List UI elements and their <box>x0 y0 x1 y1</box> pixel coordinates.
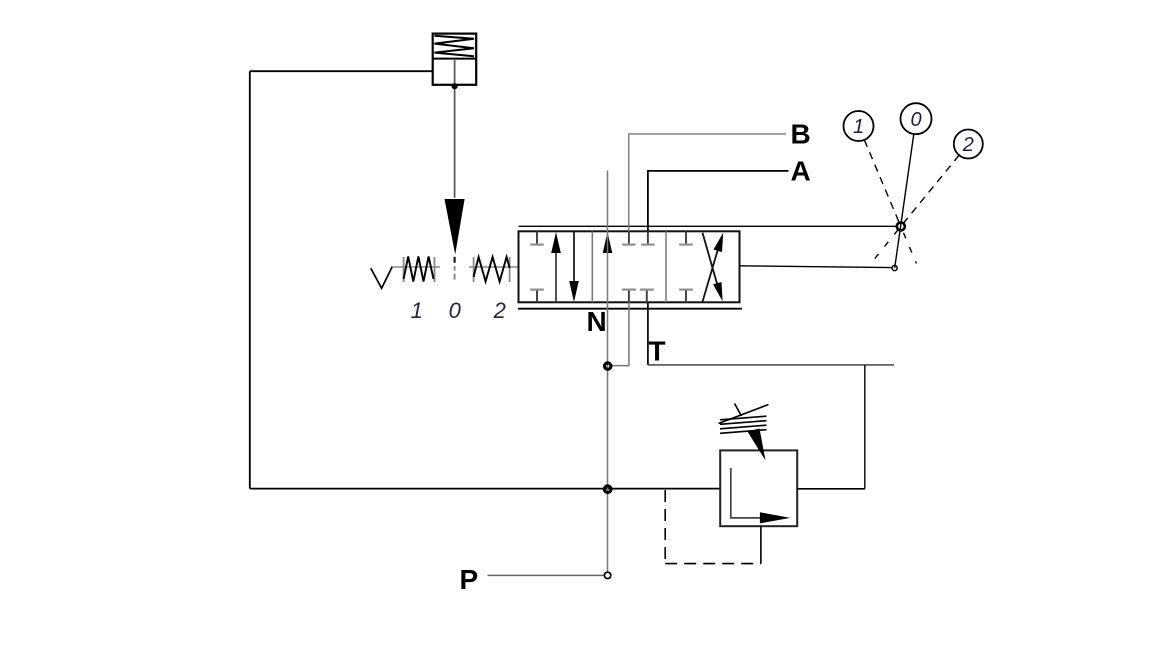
svg-text:B: B <box>791 118 811 149</box>
wire left loop vertical <box>249 71 251 488</box>
directional valve body V1 <box>519 231 740 302</box>
pilot sense dashed wire <box>665 490 761 564</box>
spring left (return spring 1) <box>392 257 440 283</box>
pos1 blocked port top <box>530 231 544 244</box>
actuation arrow <box>445 199 465 255</box>
port P node circle <box>604 572 610 578</box>
svg-text:2: 2 <box>962 134 974 156</box>
lower rail <box>518 308 742 310</box>
lever position 1 arm dashed <box>864 140 901 227</box>
svg-text:0: 0 <box>910 109 921 131</box>
svg-text:1: 1 <box>853 116 864 138</box>
lever link line <box>740 266 892 268</box>
lever pivot <box>897 222 905 230</box>
pos0 blocked port bottom left <box>622 290 636 303</box>
lever circle 1 <box>844 111 874 141</box>
svg-text:P: P <box>460 564 479 595</box>
junction dot on spring box <box>452 83 458 89</box>
port B wire <box>629 134 786 231</box>
pos1 flow arrow up <box>555 246 557 302</box>
lever circle 0 <box>901 103 932 134</box>
pos0 flow arrow up (N passage) <box>603 232 613 253</box>
svg-text:1: 1 <box>411 298 423 323</box>
wire from N node to valve bottom <box>611 302 629 365</box>
lever position 0 arm <box>895 134 914 268</box>
detent V notch <box>371 267 393 289</box>
pos2 blocked port top <box>679 231 693 244</box>
pos0 blocked port A top <box>641 231 654 244</box>
junction node on P line <box>604 486 611 493</box>
relief valve adjustable spring <box>719 404 769 434</box>
pos0 blocked port B top <box>622 231 635 244</box>
pos1 blocked port bottom <box>530 290 544 303</box>
relief valve outlet wire <box>797 488 865 490</box>
svg-text:0: 0 <box>449 298 462 323</box>
upper rail to lever pivot <box>519 225 897 227</box>
dash-dot axis <box>454 257 456 280</box>
svg-text:T: T <box>649 336 666 367</box>
relief valve flow path <box>731 468 761 518</box>
lever position 2 arm dashed <box>901 155 959 226</box>
relief valve drain stub <box>760 526 762 563</box>
divider 1-0 <box>591 231 593 302</box>
spring right (return spring 2) <box>469 257 519 282</box>
pos1 flow arrow down <box>573 231 575 287</box>
junction node N <box>605 363 611 369</box>
divider 0-2 <box>665 231 667 302</box>
relief valve pilot arrow <box>748 429 766 461</box>
pos2 blocked port bottom <box>679 290 693 303</box>
lever link end circle <box>892 265 897 270</box>
port T wire horizontal <box>648 364 894 366</box>
plunger rod <box>454 59 456 198</box>
svg-text:A: A <box>791 156 811 187</box>
unloading pilot valve spring box <box>433 34 477 85</box>
port T wire vertical <box>647 302 649 365</box>
port P wire <box>488 574 605 576</box>
port A wire <box>648 171 789 231</box>
svg-text:N: N <box>587 306 607 337</box>
node N vertical wire <box>607 171 609 576</box>
pos0 blocked port bottom right <box>640 290 654 303</box>
pilot wire to spring box <box>250 70 433 72</box>
pos2 crossed flow arrow NE <box>703 244 720 302</box>
pos2 crossed flow arrow SE <box>703 233 719 287</box>
wire P supply horizontal <box>250 488 720 490</box>
svg-text:2: 2 <box>493 298 506 323</box>
relief valve RV1 body <box>720 450 797 526</box>
wire T down to relief valve outlet <box>864 365 866 489</box>
lever circle 2 <box>954 130 983 159</box>
